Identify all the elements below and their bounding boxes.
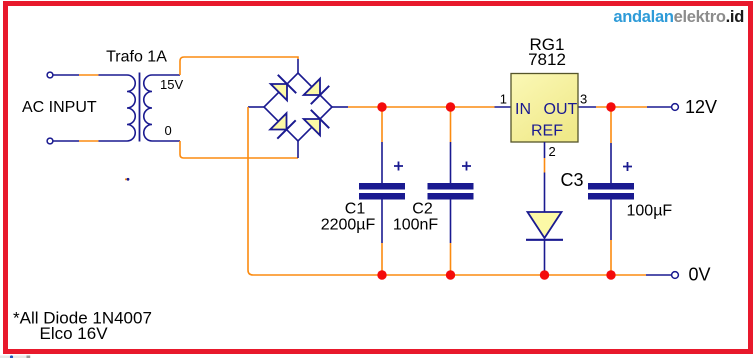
- svg-text:OUT: OUT: [544, 101, 578, 118]
- wire: bridge minus down to 0V rail (orange net): [248, 107, 646, 275]
- svg-text:100µF: 100µF: [627, 203, 673, 220]
- transformer T1 primary coil: [127, 75, 135, 141]
- svg-text:7812: 7812: [528, 50, 566, 69]
- diode D3 (bridge bottom-left): [270, 113, 296, 139]
- svg-text:15V: 15V: [160, 77, 183, 92]
- svg-text:3: 3: [580, 92, 587, 107]
- svg-text:Trafo 1A: Trafo 1A: [106, 49, 167, 66]
- wire: bridge right stub: [332, 106, 348, 108]
- terminal: AC input top: [47, 72, 53, 78]
- junction dot bottom rail C3: [606, 270, 615, 279]
- wire: output orange net: [596, 106, 647, 108]
- bridge rectifier diamond wires: [264, 73, 332, 141]
- terminal: 12V output: [672, 104, 679, 111]
- svg-text:2200µF: 2200µF: [321, 217, 376, 234]
- wire: regulator pin 2 stub: [544, 142, 546, 158]
- wire: bridge top stub: [297, 59, 299, 73]
- svg-text:REF: REF: [531, 123, 563, 140]
- junction dot top rail C2: [446, 102, 455, 111]
- junction dot bottom rail C1: [377, 270, 386, 279]
- svg-text:C2: C2: [412, 201, 433, 218]
- junction dot top rail C1: [377, 102, 386, 111]
- browser strip artifact bottom-left: [0, 355, 31, 358]
- wire: diode D5 cathode lead: [544, 240, 546, 275]
- wire: regulator pin 3 stub: [578, 106, 596, 108]
- svg-text:andalanelektro.id: andalanelektro.id: [613, 8, 744, 26]
- svg-text:0V: 0V: [689, 265, 711, 285]
- diode D4 (bridge bottom-right): [304, 110, 330, 136]
- wire: output lead to 12V terminal: [647, 106, 672, 108]
- svg-text:IN: IN: [515, 101, 531, 118]
- svg-text:100nF: 100nF: [393, 217, 439, 234]
- capacitor C3: [588, 107, 634, 275]
- capacitor C1: [359, 107, 405, 275]
- wire: diode D5 anode lead: [544, 173, 546, 213]
- wire: 0V lead to terminal: [646, 274, 672, 276]
- svg-text:2: 2: [549, 144, 556, 159]
- wire: bridge left stub: [248, 106, 264, 108]
- junction dot bottom rail D5: [540, 270, 549, 279]
- svg-text:Elco 16V: Elco 16V: [40, 324, 109, 343]
- wire: AC top lead blue: [53, 74, 127, 76]
- wire: regulator pin 1 stub: [495, 106, 512, 108]
- wire: secondary bottom lead: [152, 140, 180, 142]
- wire: AC top lead orange: [79, 74, 98, 76]
- transformer T1 secondary coil: [144, 75, 152, 141]
- transformer T1 core: [139, 73, 141, 142]
- wire: AC bottom lead blue: [53, 140, 127, 142]
- wire: bridge bottom stub: [297, 141, 299, 158]
- diode D5 (reference diode): [526, 212, 563, 240]
- svg-text:12V: 12V: [685, 97, 717, 117]
- junction dot bottom rail C2: [446, 270, 455, 279]
- wire: +V rail orange to regulator pin 1: [348, 106, 495, 108]
- capacitor C2: [428, 107, 474, 275]
- svg-text:C3: C3: [561, 170, 584, 190]
- svg-text:AC INPUT: AC INPUT: [22, 99, 97, 116]
- svg-text:0: 0: [165, 123, 172, 138]
- wire: secondary bottom to bridge (orange net): [180, 141, 298, 158]
- wire: AC bottom lead orange: [79, 140, 98, 142]
- svg-text:C1: C1: [345, 201, 366, 218]
- junction dot top rail output: [606, 102, 615, 111]
- terminal: 0V output: [672, 272, 679, 279]
- wire: secondary top lead: [152, 74, 180, 76]
- svg-text:1: 1: [500, 92, 507, 107]
- stray dot artifact: [125, 178, 127, 180]
- diode D1 (bridge top-left): [271, 75, 297, 101]
- wire: secondary top to bridge (orange net): [180, 57, 298, 75]
- terminal: AC input bottom: [47, 138, 53, 144]
- regulator U1 7812 body: [511, 74, 578, 143]
- diode D2 (bridge top-right): [304, 79, 330, 105]
- wire: pin 2 orange net: [544, 158, 546, 173]
